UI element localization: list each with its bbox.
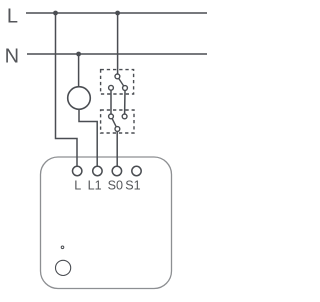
svg-text:S1: S1 — [125, 178, 140, 192]
svg-text:N: N — [5, 46, 19, 68]
svg-text:S0: S0 — [108, 178, 123, 192]
svg-text:L: L — [74, 178, 81, 192]
svg-text:L: L — [7, 6, 18, 28]
svg-text:L1: L1 — [88, 178, 102, 192]
